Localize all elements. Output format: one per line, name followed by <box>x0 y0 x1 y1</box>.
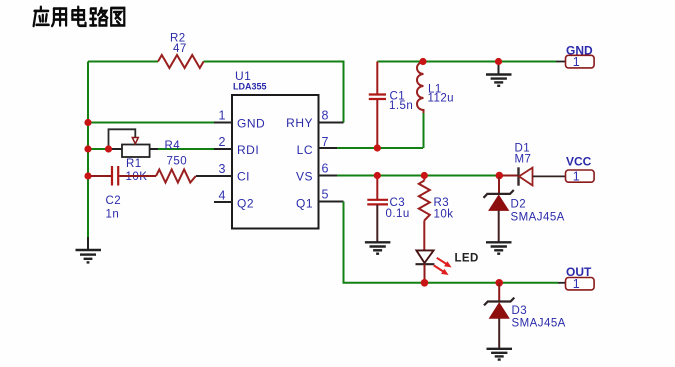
svg-text:8: 8 <box>322 109 329 123</box>
svg-text:LC: LC <box>297 143 313 157</box>
inductor L1 <box>417 62 424 114</box>
LED arrows <box>434 258 451 275</box>
diode D3 (TVS) <box>484 283 514 349</box>
port VCC <box>566 169 595 183</box>
resistor R4 <box>156 170 196 183</box>
svg-text:CI: CI <box>237 170 250 184</box>
wire: Q1 pin5 to OUT row <box>344 202 559 283</box>
resistor R2 <box>158 55 204 68</box>
wire: stub to OUT port <box>558 282 566 284</box>
svg-text:0.1u: 0.1u <box>386 208 410 220</box>
pin 7 stub <box>319 147 338 149</box>
wire: R4 to pin3 <box>196 175 214 177</box>
用 <box>52 9 66 26</box>
ground (below C3) <box>365 242 391 253</box>
wire: top horizontal right of R2 to corner <box>204 62 344 123</box>
wire: top horizontal left of R2 <box>88 61 158 63</box>
wire: row2 pot to pin2 <box>157 148 214 150</box>
pin 2 stub <box>214 148 232 150</box>
ground (below D3) <box>487 349 513 360</box>
svg-text:LED: LED <box>455 253 479 265</box>
svg-text:750: 750 <box>167 156 188 168</box>
svg-text:OUT: OUT <box>566 265 592 279</box>
potentiometer R1 body <box>109 145 159 158</box>
svg-text:D3: D3 <box>512 305 528 317</box>
pin 4 stub <box>214 201 232 203</box>
svg-text:112u: 112u <box>428 93 455 105</box>
应 <box>34 7 49 26</box>
wire: VS row pin6 to D1 <box>337 175 499 177</box>
svg-text:VS: VS <box>296 170 313 184</box>
wire: LC row pin7 to L1 bottom <box>337 147 423 149</box>
node: left bus junction row3 <box>84 172 91 179</box>
capacitor C2 <box>112 166 156 186</box>
svg-text:RDI: RDI <box>237 143 259 157</box>
svg-text:GND: GND <box>566 44 593 58</box>
svg-text:4: 4 <box>219 189 226 203</box>
title 应用电路图 (drawn strokes) <box>34 7 125 26</box>
svg-text:5: 5 <box>322 188 329 202</box>
svg-text:D2: D2 <box>511 199 527 211</box>
ground (below D2) <box>486 242 512 253</box>
svg-text:1n: 1n <box>106 209 120 221</box>
svg-text:3: 3 <box>219 162 226 176</box>
svg-text:1.5n: 1.5n <box>389 100 413 112</box>
svg-text:VCC: VCC <box>566 155 592 169</box>
pin 6 stub <box>319 175 338 177</box>
svg-text:SMAJ45A: SMAJ45A <box>512 318 566 330</box>
svg-text:1: 1 <box>573 169 580 183</box>
svg-text:RHY: RHY <box>286 116 313 130</box>
port OUT <box>566 277 595 291</box>
wire: row3 junction to C2 <box>88 175 111 177</box>
svg-text:SMAJ45A: SMAJ45A <box>511 212 565 224</box>
svg-text:7: 7 <box>322 135 329 149</box>
node: L1 top junction <box>419 58 426 65</box>
图 <box>111 8 124 25</box>
resistor R3 <box>419 176 430 251</box>
port GND <box>566 55 595 69</box>
ground (top, near GND port) <box>486 62 512 86</box>
pin 1 stub <box>214 122 232 124</box>
路 <box>90 8 107 25</box>
svg-text:R3: R3 <box>434 197 450 209</box>
node: left bus junction row1 <box>84 119 91 126</box>
node: C3 junction <box>374 172 381 179</box>
node: D1/D2 junction <box>496 172 504 180</box>
svg-text:6: 6 <box>322 162 329 176</box>
pin 8 stub <box>319 122 344 124</box>
svg-text:R4: R4 <box>165 140 181 152</box>
node: ground junction on top net <box>495 58 502 65</box>
svg-text:R1: R1 <box>126 158 142 170</box>
wire: stub to GND port <box>556 61 566 63</box>
电 <box>72 7 85 26</box>
diode D1 <box>519 167 566 185</box>
node: C1 bottom junction <box>374 144 381 151</box>
wire: row2 to pot junction <box>88 148 109 150</box>
svg-text:C2: C2 <box>106 195 122 207</box>
ground (left, below C2 bus) <box>76 237 102 262</box>
node: pot tap junction <box>105 145 112 152</box>
svg-text:2: 2 <box>219 135 226 149</box>
svg-text:10k: 10k <box>434 209 454 221</box>
svg-text:M7: M7 <box>515 154 532 166</box>
svg-text:1: 1 <box>219 109 226 123</box>
potentiometer R1 wiper arrow <box>132 138 138 144</box>
node: left bus junction row2 <box>84 145 91 152</box>
pin 5 stub <box>319 201 344 203</box>
potentiometer R1 wiper loop <box>109 129 136 147</box>
LED LED1 <box>416 250 435 282</box>
capacitor C3 <box>367 176 388 243</box>
pin 3 stub <box>214 175 232 177</box>
svg-text:Q1: Q1 <box>296 197 313 211</box>
node: R3 junction <box>421 172 428 179</box>
op-amp U1 body <box>232 95 319 229</box>
wire: row1 GND net to pin1 <box>88 122 214 124</box>
svg-text:Q2: Q2 <box>237 197 254 211</box>
capacitor C1 <box>369 62 386 149</box>
wire: left vertical bus x=88 <box>87 62 89 238</box>
svg-text:GND: GND <box>237 117 265 131</box>
node: D3 junction on OUT row <box>495 279 503 287</box>
wire: junction to D1 cathode <box>499 175 518 177</box>
svg-text:47: 47 <box>173 43 187 55</box>
svg-text:LDA355: LDA355 <box>233 82 267 92</box>
wire: top net C1/L1 to GND port <box>377 61 556 63</box>
diode D2 (TVS) <box>484 177 514 242</box>
node: LED junction on OUT row <box>421 279 429 287</box>
